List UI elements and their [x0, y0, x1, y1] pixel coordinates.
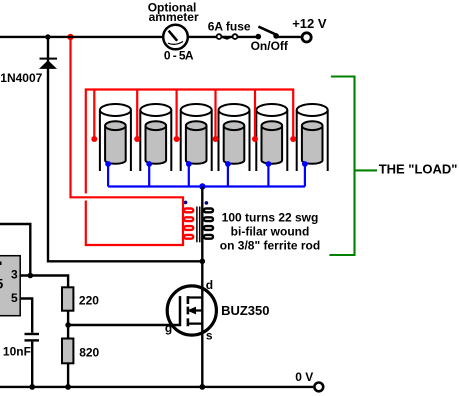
svg-text:3: 3 — [11, 267, 18, 281]
svg-text:820: 820 — [79, 345, 99, 359]
svg-text:5: 5 — [0, 275, 4, 291]
svg-text:0 - 5A: 0 - 5A — [164, 49, 194, 63]
svg-text:s: s — [206, 329, 213, 343]
svg-text:on 3/8" ferrite rod: on 3/8" ferrite rod — [220, 238, 320, 252]
svg-text:d: d — [206, 278, 213, 292]
svg-text:220: 220 — [79, 294, 99, 308]
svg-text:100 turns 22 swg: 100 turns 22 swg — [222, 210, 319, 224]
svg-text:g: g — [165, 321, 172, 335]
svg-text:On/Off: On/Off — [251, 39, 289, 53]
svg-text:1N4007: 1N4007 — [0, 71, 42, 85]
svg-text:10nF: 10nF — [3, 344, 31, 358]
svg-text:5: 5 — [11, 291, 18, 305]
svg-text:ammeter: ammeter — [149, 10, 199, 24]
svg-text:6A fuse: 6A fuse — [208, 19, 251, 33]
svg-text:BUZ350: BUZ350 — [221, 303, 269, 318]
svg-text:0 V: 0 V — [295, 370, 313, 384]
svg-text:+12 V: +12 V — [292, 16, 327, 31]
svg-text:bi-filar wound: bi-filar wound — [231, 224, 310, 238]
svg-text:THE "LOAD": THE "LOAD" — [379, 162, 458, 177]
